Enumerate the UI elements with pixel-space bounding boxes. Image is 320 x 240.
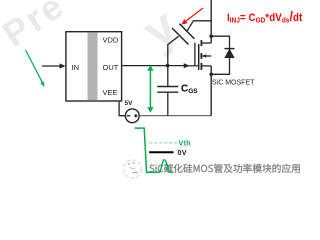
svg-text:VDD: VDD [103, 35, 119, 44]
MOSFET channel segments [200, 40, 202, 46]
waveform Vth dashed line [149, 142, 177, 144]
wire diode branch [211, 36, 229, 74]
green arrow annotation top-left [26, 50, 44, 85]
MOSFET source stub [201, 65, 211, 67]
svg-text:5V: 5V [125, 100, 134, 107]
node gate junction [166, 64, 170, 68]
capacitor CGD wire upper [187, 21, 211, 32]
wire VEE to 5V source [119, 101, 125, 116]
svg-text:Vth: Vth [179, 139, 191, 148]
svg-text:VEE: VEE [103, 88, 118, 97]
svg-text:OUT: OUT [103, 63, 119, 72]
gate arrowhead [184, 63, 190, 68]
MOSFET drain stub [201, 42, 211, 44]
wire source return (bottom) [139, 115, 211, 117]
footer text [149, 164, 299, 173]
node source/diode [209, 73, 213, 77]
body diode [225, 48, 235, 50]
driver IC gray band [88, 32, 98, 100]
svg-text:Pre: Pre [0, 0, 72, 55]
footer icon [124, 160, 142, 178]
svg-text:IN: IN [72, 63, 80, 72]
svg-text:0V: 0V [178, 148, 187, 157]
wire OUT to gate [122, 65, 185, 67]
wire riser gate to CGD [194, 43, 196, 66]
svg-text:SiC MOSFET: SiC MOSFET [212, 80, 255, 87]
capacitor CGS [167, 66, 169, 87]
waveform 0V line [149, 151, 173, 153]
MOSFET body stub with arrow [201, 55, 211, 57]
driver IC box [66, 32, 122, 101]
SiC MOSFET drain line [210, 0, 212, 43]
node drain/diode [209, 34, 213, 38]
capacitor CGD wire lower [168, 36, 179, 65]
waveform VGS trace [135, 128, 174, 172]
MOSFET gate bar [198, 44, 200, 70]
svg-text:CGS: CGS [181, 84, 198, 96]
svg-text:y: y [132, 0, 187, 60]
capacitor CGD plates [172, 28, 189, 45]
svg-text:IINJ= CGD*dVds/dt: IINJ= CGD*dVds/dt [227, 9, 303, 25]
green double arrow VGS [149, 69, 151, 109]
input signal arrow [42, 65, 62, 67]
red arrow to CGD [185, 8, 204, 22]
MOSFET source line [210, 66, 212, 116]
voltage source 5V [125, 109, 139, 123]
